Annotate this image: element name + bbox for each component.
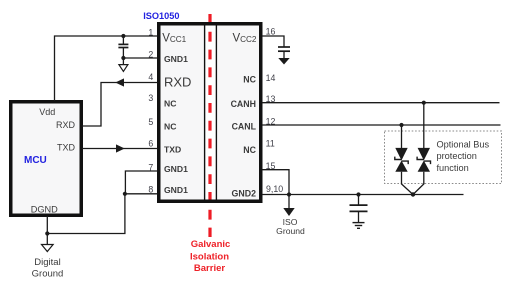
- wire pin 2 GND1: [123, 57, 157, 59]
- svg-text:VCC2: VCC2: [232, 33, 256, 45]
- svg-text:8: 8: [148, 185, 153, 195]
- wire DGND stub from MCU: [46, 216, 48, 234]
- svg-text:NC: NC: [164, 121, 176, 131]
- wire pin 8 GND1: [125, 193, 158, 195]
- label ISO Ground: [276, 217, 305, 236]
- wire GND2 (pins 9,10) bus ground: [262, 194, 464, 196]
- wire pin 7 GND1: [125, 171, 157, 194]
- capacitor C2 (VCC2 bypass): [278, 47, 290, 58]
- svg-text:4: 4: [148, 72, 153, 82]
- svg-text:TXD: TXD: [164, 144, 181, 154]
- svg-text:GND1: GND1: [164, 185, 188, 195]
- node junction digital ground: [45, 231, 49, 235]
- svg-text:Digital: Digital: [34, 257, 60, 268]
- capacitor C3 (bus termination): [350, 195, 368, 223]
- svg-text:CANL: CANL: [232, 121, 257, 131]
- svg-text:5: 5: [148, 117, 153, 127]
- svg-text:MCU: MCU: [24, 155, 47, 166]
- svg-text:DGND: DGND: [31, 205, 58, 215]
- svg-text:6: 6: [148, 139, 153, 149]
- svg-text:9,10: 9,10: [266, 184, 283, 194]
- svg-text:RXD: RXD: [164, 75, 191, 90]
- svg-text:Optional Bus: Optional Bus: [437, 139, 490, 149]
- wire pin 15: [262, 170, 289, 195]
- svg-text:GND1: GND1: [164, 164, 188, 174]
- ground (ISO ground arrow under C2): [278, 58, 289, 65]
- capacitor C1 (VCC1 bypass): [118, 36, 128, 58]
- svg-text:Galvanic: Galvanic: [191, 239, 231, 250]
- dashed box optional bus protection: [385, 131, 502, 184]
- svg-text:GND1: GND1: [164, 54, 188, 64]
- label Galvanic Isolation Barrier: [190, 239, 230, 274]
- svg-text:Ground: Ground: [32, 268, 64, 279]
- node junction TVS to GND2: [411, 192, 415, 196]
- IC U1 ISO1050 body left half fill: [161, 26, 204, 200]
- node junction on pin2 wire: [121, 56, 125, 60]
- wire CANL (pin 12): [262, 124, 501, 126]
- arrow RXD (pointing left): [115, 78, 124, 86]
- svg-text:NC: NC: [243, 145, 256, 155]
- svg-text:16: 16: [266, 27, 276, 37]
- IC U1 inner isolation line left: [204, 26, 206, 200]
- ground (earth ground under C3): [353, 223, 365, 229]
- node junction CANH / TVS: [422, 101, 426, 105]
- label Optional Bus protection function: [437, 139, 490, 173]
- svg-text:GND2: GND2: [232, 188, 257, 198]
- MCU box: [11, 102, 82, 216]
- node junction termination cap: [356, 192, 360, 196]
- ground (signal ground under C1): [119, 58, 128, 71]
- svg-text:Isolation: Isolation: [190, 251, 229, 262]
- svg-text:11: 11: [266, 139, 275, 149]
- node junction pin15 / GND2: [287, 192, 291, 196]
- node junction on pin1 wire: [121, 34, 125, 38]
- svg-text:protection: protection: [437, 151, 477, 161]
- svg-text:Ground: Ground: [276, 226, 305, 236]
- svg-text:TXD: TXD: [57, 143, 76, 153]
- IC U1 ISO1050 outer box: [159, 24, 261, 202]
- label Digital Ground: [32, 257, 64, 280]
- galvanic isolation barrier (red dashed line): [208, 14, 211, 237]
- IC U1 inner isolation line right: [215, 26, 217, 200]
- TVS diode D1 (on CANL): [395, 125, 413, 195]
- node junction CANL / TVS: [399, 123, 403, 127]
- svg-text:Vdd: Vdd: [39, 107, 55, 117]
- svg-text:NC: NC: [243, 74, 256, 84]
- TVS diode D2 (on CANH): [413, 103, 431, 195]
- arrow TXD (pointing right): [116, 144, 125, 152]
- svg-text:VCC1: VCC1: [162, 33, 186, 45]
- svg-text:RXD: RXD: [56, 120, 76, 130]
- wire RXD net (pin 4 to MCU RXD): [82, 83, 158, 127]
- wire CANH (pin 13): [262, 102, 500, 104]
- svg-text:ISO1050: ISO1050: [143, 11, 179, 21]
- ground (ISO ground arrow): [283, 195, 294, 217]
- wire Vdd net (MCU top to pin 1): [55, 36, 158, 101]
- svg-text:3: 3: [148, 93, 153, 103]
- node junction pins 7-8: [123, 192, 127, 196]
- svg-text:function: function: [437, 163, 469, 173]
- ground (digital ground symbol): [42, 234, 54, 252]
- svg-text:CANH: CANH: [231, 99, 256, 109]
- svg-text:Barrier: Barrier: [194, 263, 225, 274]
- svg-text:NC: NC: [164, 99, 176, 109]
- wire pin 16 VCC2 stub: [262, 36, 284, 47]
- wire GND1 net to digital ground: [47, 194, 125, 234]
- wire TXD net (MCU TXD to pin 6): [82, 148, 158, 150]
- IC U1 ISO1050 body right half fill: [218, 26, 262, 200]
- svg-text:14: 14: [266, 73, 276, 83]
